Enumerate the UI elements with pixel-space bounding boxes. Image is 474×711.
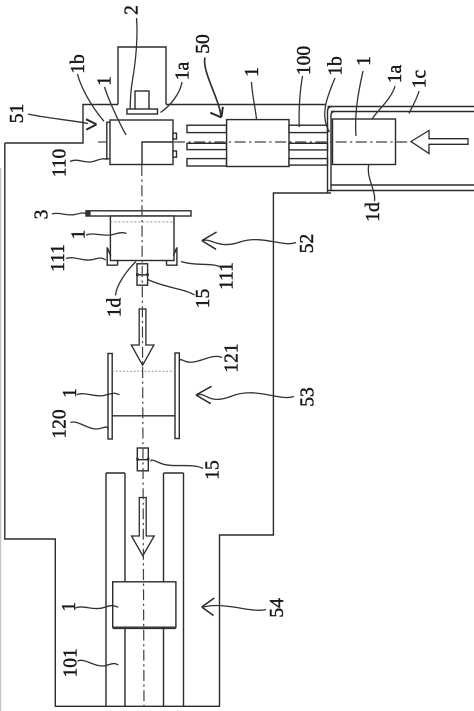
svg-text:2: 2 — [122, 5, 143, 15]
svg-text:15: 15 — [202, 460, 223, 480]
svg-text:1: 1 — [354, 56, 375, 66]
svg-text:120: 120 — [50, 409, 71, 438]
svg-text:1: 1 — [59, 602, 80, 612]
svg-text:101: 101 — [61, 648, 82, 677]
svg-text:1d: 1d — [363, 202, 384, 222]
svg-text:100: 100 — [294, 46, 315, 75]
svg-text:1a: 1a — [173, 61, 194, 80]
svg-text:1: 1 — [60, 388, 81, 398]
svg-text:54: 54 — [267, 598, 288, 618]
svg-text:1: 1 — [242, 67, 263, 77]
svg-text:51: 51 — [7, 104, 28, 124]
svg-text:1: 1 — [95, 76, 116, 86]
svg-text:52: 52 — [297, 234, 318, 254]
svg-text:111: 111 — [48, 244, 69, 272]
svg-text:53: 53 — [298, 387, 319, 407]
svg-text:15: 15 — [193, 289, 214, 309]
svg-text:121: 121 — [221, 343, 242, 372]
svg-text:1: 1 — [69, 230, 90, 240]
svg-text:1a: 1a — [385, 64, 406, 83]
svg-text:3: 3 — [32, 210, 53, 220]
svg-text:111: 111 — [217, 262, 238, 290]
svg-text:1b: 1b — [68, 54, 89, 74]
svg-text:50: 50 — [193, 34, 214, 54]
svg-text:110: 110 — [50, 149, 71, 178]
svg-text:1d: 1d — [105, 298, 126, 318]
svg-text:1b: 1b — [326, 56, 347, 76]
svg-text:1c: 1c — [410, 69, 431, 88]
